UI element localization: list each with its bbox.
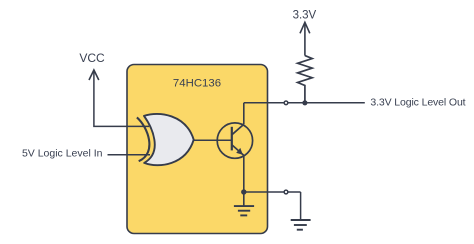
svg-text:VCC: VCC	[79, 51, 105, 65]
svg-text:5V Logic Level In: 5V Logic Level In	[22, 148, 103, 160]
svg-text:3.3V: 3.3V	[293, 9, 317, 21]
svg-text:74HC136: 74HC136	[173, 77, 221, 89]
svg-text:3.3V Logic Level Out: 3.3V Logic Level Out	[370, 97, 465, 109]
